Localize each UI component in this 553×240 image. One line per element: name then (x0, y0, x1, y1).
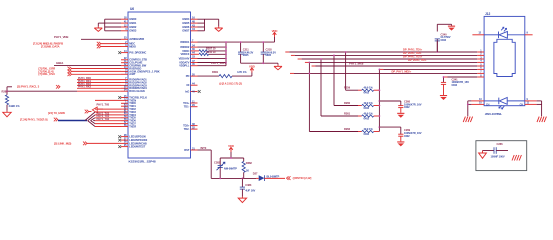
svg-text:R288: R288 (2, 90, 9, 94)
svg-text:R262: R262 (344, 127, 351, 131)
svg-text:0805: 0805 (243, 53, 249, 57)
svg-text:GND7: GND7 (182, 29, 190, 33)
resistor R382 1K (242, 158, 252, 178)
off-page MDC net [7,8,24] MII_RNSFB (33, 42, 121, 46)
svg-text:0402: 0402 (364, 116, 370, 120)
svg-text:R382: R382 (246, 161, 253, 165)
svg-text:0805: 0805 (266, 53, 272, 57)
svg-text:R210 10: R210 10 (206, 50, 216, 54)
svg-text:VDDAHV: VDDAHV (179, 56, 190, 60)
off-page RXER net [7] RXL_ERR (39, 66, 122, 70)
svg-text:GND2: GND2 (129, 25, 137, 29)
svg-text:PHY1_TX0: PHY1_TX0 (97, 103, 110, 107)
svg-text:DP_PHY1_TD0+: DP_PHY1_TD0+ (403, 47, 423, 51)
svg-text:49.9 1%: 49.9 1% (364, 101, 374, 105)
ground shield box left (479, 151, 489, 159)
svg-text:0402: 0402 (404, 105, 410, 109)
svg-text:X0: X0 (186, 83, 190, 87)
note text red (219, 82, 242, 86)
svg-text:VDDIO2: VDDIO2 (180, 45, 190, 49)
svg-text:BL0-BMTP: BL0-BMTP (267, 174, 280, 178)
off-page net [5] LINK_M3 (54, 142, 121, 146)
svg-text:INT0: INT0 (201, 146, 207, 150)
svg-text:4UF 16V: 4UF 16V (245, 189, 255, 193)
svg-text:GND4: GND4 (182, 17, 190, 21)
svg-text:TD2+: TD2+ (183, 124, 190, 128)
svg-text:49.9 1%: 49.9 1% (364, 86, 374, 90)
svg-text:PHY1_TX3: PHY1_TX3 (97, 111, 110, 115)
no-connect X on TXC pin (118, 96, 121, 99)
power VDD PD pullup (249, 64, 255, 72)
svg-text:VDD: VDD (249, 64, 255, 68)
ground GND4-7 (215, 26, 223, 31)
ground C383 (238, 197, 246, 203)
diode D27 BL0-BMTP (253, 171, 285, 181)
connector jack inner outline (494, 39, 515, 76)
svg-text:C266: C266 (497, 142, 504, 146)
svg-text:9: 9 (527, 31, 529, 35)
LED bottom inside J12 (484, 98, 525, 109)
resistor R262 49.9 1% (309, 127, 379, 136)
wire R288 to ground (6, 105, 8, 111)
net labels DP_PHY1 pairs (403, 47, 427, 62)
svg-text:[5] LINK_M(3): [5] LINK_M(3) (54, 142, 71, 146)
LED top inside J12 (484, 27, 525, 38)
svg-text:PHY1_VDB: PHY1_VDB (54, 35, 68, 39)
ground C260 (397, 113, 404, 118)
op-amp U6 Ethernet PHY IC body (128, 7, 191, 164)
chassis ground left of J12 (463, 117, 472, 123)
svg-text:0402: 0402 (364, 106, 370, 110)
svg-text:U6: U6 (130, 7, 134, 11)
ground C240 (448, 26, 455, 31)
svg-text:GND0: GND0 (129, 17, 137, 21)
off-page net [5] PHY1_RXCL 3 (17, 85, 60, 89)
svg-text:NM-06MTP: NM-06MTP (224, 166, 237, 170)
power VDD top (272, 29, 278, 37)
resistor R260 49.9 1% (334, 101, 379, 110)
svg-text:DP_PHY1_MD2+: DP_PHY1_MD2+ (392, 70, 412, 74)
capacitor C240 4.7N/50V (435, 32, 451, 52)
net label PHY1_VDL1 (211, 61, 227, 65)
connector J12 body (484, 12, 525, 116)
wires RXD0-3 with net labels PHY1_RX0-3 (77, 76, 121, 91)
resistor R209 10 (198, 47, 227, 53)
svg-text:4.99K 1%: 4.99K 1% (9, 104, 21, 108)
capacitor C211 10U/6.3V (238, 48, 253, 58)
svg-text:RST: RST (184, 148, 190, 152)
resistor R261 49.9 1% (321, 111, 379, 120)
wire reset node rail (211, 178, 256, 180)
resistor R259 49.9 1% (344, 86, 379, 95)
off-page net RST0 (287, 176, 312, 180)
resistor R381 4.7K on PD pin (198, 70, 252, 78)
connector J12 bottom-right chassis pins (525, 98, 542, 116)
wire RXCL from pulldown (6, 87, 77, 95)
svg-text:MDIO: MDIO (129, 44, 136, 48)
svg-text:GND5: GND5 (182, 21, 190, 25)
svg-text:J12: J12 (485, 12, 490, 16)
no-connect X LED1 (118, 135, 121, 138)
chassis ground shield box right (512, 155, 521, 161)
capacitor C218 10U/6.3V (261, 48, 276, 58)
svg-text:D27: D27 (253, 171, 258, 175)
svg-text:@RST0# [2,12]: @RST0# [2,12] (293, 176, 312, 180)
ground VDD caps (274, 65, 282, 70)
svg-text:C382: C382 (214, 160, 221, 164)
wires differential pairs to RJ45 (285, 52, 477, 77)
svg-text:4.7K 1%: 4.7K 1% (237, 70, 247, 74)
power VDD reset (228, 144, 234, 152)
wire GND4-7 tie (198, 19, 219, 31)
svg-text:LED1/SPD100: LED1/SPD100 (129, 135, 146, 139)
svg-text:R260: R260 (344, 101, 351, 105)
svg-text:R261: R261 (344, 111, 351, 115)
svg-text:VDD: VDD (228, 144, 234, 148)
svg-text:PXI_DPOE/NC: PXI_DPOE/NC (129, 51, 146, 55)
shield network box (476, 141, 527, 171)
off-page net [24] TX_ENW (48, 100, 121, 115)
svg-text:TD1-: TD1- (184, 105, 190, 109)
svg-text:PD: PD (186, 74, 190, 78)
svg-text:PHY1_TX2: PHY1_TX2 (97, 117, 110, 121)
svg-text:AVDDH/VDB: AVDDH/VDB (129, 37, 144, 41)
svg-text:1K: 1K (246, 169, 249, 173)
connector J12 bottom-left chassis pins (467, 98, 523, 116)
svg-text:[7,8] MII_DATA: [7,8] MII_DATA (41, 44, 60, 48)
no-connect X on XO pin (198, 90, 201, 93)
wire VDD rail to caps (240, 41, 264, 52)
wire reset loop top (220, 152, 244, 159)
svg-text:GND6: GND6 (182, 25, 190, 29)
capacitor C241 100N/X7R_16V (441, 76, 469, 95)
svg-text:CH: CH (520, 103, 524, 106)
wire stub to C269 (379, 127, 400, 134)
svg-text:C383: C383 (245, 183, 252, 187)
svg-text:PHY1_VDL1: PHY1_VDL1 (211, 61, 227, 65)
svg-text:JW0-1078NL: JW0-1078NL (485, 112, 503, 116)
wire VDDIO1 rail to VDD (198, 37, 275, 42)
net labels PHY1_TX0-3 (97, 103, 110, 122)
svg-text:VDDCX: VDDCX (180, 52, 189, 56)
bus entries and TXD0-7 wires (85, 109, 121, 126)
svg-text:GBE1: GBE1 (56, 61, 64, 65)
svg-text:TD2-: TD2- (184, 127, 190, 131)
off-page MDIO net [7,8] MII_DATA (41, 44, 121, 48)
svg-text:TD1+: TD1+ (183, 101, 190, 105)
ground C269 (397, 141, 404, 146)
wire stub to C260 (379, 101, 400, 106)
wire termination common node (379, 69, 381, 132)
svg-text:[7] RXL_DV3: [7] RXL_DV3 (39, 72, 56, 76)
wire C240 riser to ground (436, 24, 451, 53)
svg-text:12: 12 (478, 31, 481, 35)
capacitor C383 4UF 16V (240, 178, 256, 196)
wire caps bottom rail (241, 54, 278, 65)
capacitor C266 shield 100N 100V (489, 142, 508, 159)
svg-text:R381: R381 (212, 70, 219, 74)
svg-text:RXCL/ALIGN: RXCL/ALIGN (129, 89, 145, 93)
ground C241 (440, 95, 447, 100)
wire INT from IC (198, 146, 212, 178)
svg-text:@(2.4.2.8.D.17) (2): @(2.4.2.8.D.17) (2) (219, 82, 242, 86)
svg-text:0402: 0402 (452, 83, 458, 87)
svg-text:PHY1_RX3: PHY1_RX3 (78, 85, 91, 89)
svg-text:InG: InG (185, 89, 189, 93)
no-connect X LED2 (118, 139, 121, 142)
IC U6 right pin stubs with pin numbers and names (179, 16, 198, 152)
capacitor C260 100N/X7R_16V (398, 100, 422, 113)
svg-text:DP_PHY1_TD1+: DP_PHY1_TD1+ (403, 54, 423, 58)
svg-text:CH: CH (486, 103, 490, 106)
svg-text:GND3: GND3 (129, 29, 137, 33)
svg-text:0402: 0402 (441, 38, 447, 42)
chassis ground right of J12 (537, 117, 546, 123)
svg-text:49.9 1%: 49.9 1% (364, 127, 374, 131)
ground GND left (94, 26, 102, 31)
connector J12 left pins 1-8 (477, 49, 484, 77)
ground under R288 (3, 111, 11, 117)
net label PHY1_MX8 (349, 61, 364, 65)
wire LED top pins (472, 31, 532, 35)
wires vertical drops to termination (309, 51, 347, 131)
resistor R288 4.99K pulldown (2, 90, 21, 109)
svg-text:100NF 100V: 100NF 100V (491, 154, 505, 158)
net label PHY1_VDB and wire (54, 35, 121, 40)
resistor R210 10 (198, 50, 227, 56)
svg-text:R259: R259 (344, 86, 351, 90)
capacitor C382 NM trimmer (214, 158, 237, 178)
svg-text:0402: 0402 (404, 134, 410, 138)
wire GND0-3 tie (98, 19, 121, 31)
off-page bus [7,24] PHY1_TXD (20, 117, 58, 121)
svg-text:LED0/WTEST: LED0/WTEST (129, 145, 145, 149)
net label GBE1 and wire (54, 61, 121, 65)
bus PHY1_TXD (58, 120, 87, 122)
svg-text:VDDC: VDDC (182, 49, 189, 53)
net label DP_PHY1_MD (392, 70, 412, 74)
svg-text:[7,24] PHY1_TXD[7:0]: [7,24] PHY1_TXD[7:0] (20, 117, 47, 121)
svg-text:VDD: VDD (272, 29, 278, 33)
capacitor C269 100N/X7R_16V (398, 128, 422, 141)
svg-text:VDDIO1: VDDIO1 (180, 40, 190, 44)
svg-text:[24] TX_ENW: [24] TX_ENW (48, 111, 65, 115)
svg-text:VDDPLL: VDDPLL (179, 64, 190, 68)
svg-text:0402: 0402 (364, 91, 370, 95)
svg-text:DP_PHY1_TD0-: DP_PHY1_TD0- (403, 51, 422, 55)
off-page RXC net [7] RXL[3:4] (39, 69, 122, 73)
svg-text:PHY1_MX8: PHY1_MX8 (349, 61, 364, 65)
wire VDD bus vertical (198, 41, 227, 66)
svg-text:DP_PHY1_TD1-: DP_PHY1_TD1- (408, 58, 427, 62)
IC U6 left pin stubs with pin numbers and names (121, 16, 160, 149)
svg-text:A33T: A33T (129, 72, 136, 76)
svg-text:KSZ9031RL_S2P48: KSZ9031RL_S2P48 (129, 160, 156, 164)
svg-text:TXER: TXER (129, 124, 136, 128)
svg-text:49.9 1%: 49.9 1% (364, 111, 374, 115)
svg-text:R207 10: R207 10 (206, 47, 216, 51)
svg-text:0402: 0402 (364, 132, 370, 136)
no-connect X on pin 14 (118, 51, 121, 54)
svg-text:[5] PHY1_RXCL 3: [5] PHY1_RXCL 3 (17, 85, 40, 89)
svg-text:GND1: GND1 (129, 21, 137, 25)
off-page RXDV net [7] RXL_DV3 (39, 72, 122, 76)
no-connect X LED0 (118, 145, 121, 148)
